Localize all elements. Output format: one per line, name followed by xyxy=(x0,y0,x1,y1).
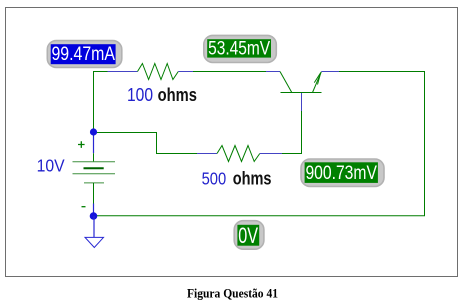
wire: blue lead out of R2 xyxy=(260,153,282,155)
transistor Q1 emitter diagonal xyxy=(313,72,322,93)
wire: middle wire from top junction, step down xyxy=(94,133,198,154)
transistor Q1 collector diagonal xyxy=(280,72,292,93)
battery V1 plate 4 short xyxy=(84,182,104,184)
svg-text:10V: 10V xyxy=(37,155,65,175)
plus sign of battery xyxy=(78,141,85,148)
svg-text:100: 100 xyxy=(127,84,153,105)
minus sign of battery xyxy=(82,206,86,208)
probe label 0V bubble xyxy=(234,221,264,250)
ground symbol triangle xyxy=(85,237,104,247)
battery V1 top lead blue xyxy=(93,133,95,154)
transistor Q1 base bar xyxy=(281,92,322,94)
node: top junction dot xyxy=(90,128,97,135)
battery V1 top lead green xyxy=(93,153,95,162)
battery V1 bottom lead blue xyxy=(93,204,95,217)
wire: blue emitter lead stub xyxy=(321,71,339,73)
wire: blue lead out of R1 xyxy=(178,71,193,73)
battery V1 plate 2 short thick xyxy=(84,167,104,169)
svg-text:ohms: ohms xyxy=(233,168,272,188)
svg-text:Figura Questão 41: Figura Questão 41 xyxy=(187,287,278,301)
wire: blue lead into R2 xyxy=(197,153,217,155)
battery V1 bottom lead green xyxy=(93,183,95,204)
svg-text:0V: 0V xyxy=(238,223,258,248)
wire: green to base corner xyxy=(282,153,302,155)
svg-text:ohms: ohms xyxy=(158,85,197,105)
probe label 99.47mA bubble xyxy=(47,41,122,68)
svg-text:900.73mV: 900.73mV xyxy=(305,163,377,184)
ground lead xyxy=(93,216,95,237)
wire: green top wire to transistor xyxy=(193,71,266,73)
svg-text:53.45mV: 53.45mV xyxy=(208,39,270,60)
wire: left rail top vertical and top horizontal stub xyxy=(94,72,108,133)
probe label 53.45mV bubble xyxy=(204,35,276,62)
node: bottom junction dot xyxy=(90,212,98,220)
wire: blue lead into R1 xyxy=(108,71,138,73)
svg-text:99.47mA: 99.47mA xyxy=(51,44,115,65)
wire: base lead blue xyxy=(301,93,303,111)
wire: blue collector lead stub xyxy=(266,71,280,73)
probe label 900.73mV bubble xyxy=(301,159,384,187)
wire: top right green wire, right rail, bottom wire xyxy=(97,72,425,216)
svg-text:500: 500 xyxy=(202,168,227,188)
transistor Q1 emitter arrowhead xyxy=(314,73,321,85)
resistor R1 100 ohms zigzag xyxy=(138,64,179,80)
resistor R2 500 ohms zigzag xyxy=(217,146,260,162)
battery V1 plate 1 long xyxy=(73,161,116,163)
battery V1 plate 3 long xyxy=(73,173,116,175)
wire: base vertical green down to middle wire xyxy=(301,111,303,154)
